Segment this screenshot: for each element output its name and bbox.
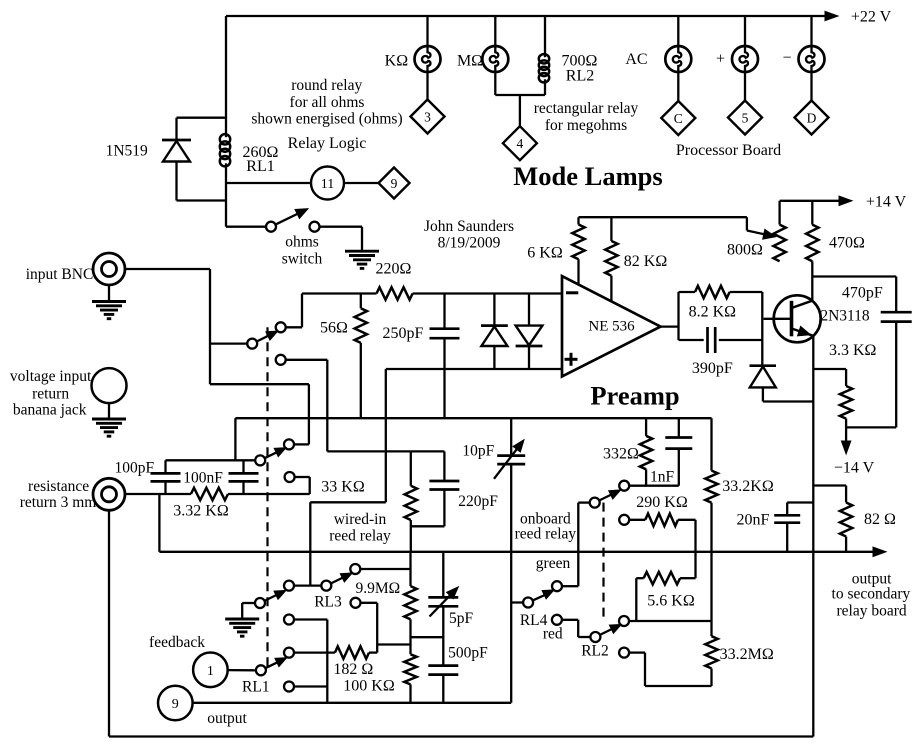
svg-text:−: −: [782, 50, 791, 67]
svg-text:Processor Board: Processor Board: [676, 142, 781, 159]
svg-text:relay board: relay board: [837, 603, 907, 620]
svg-text:RL3: RL3: [314, 594, 342, 611]
svg-text:input BNC: input BNC: [26, 266, 94, 283]
svg-text:5pF: 5pF: [449, 610, 474, 627]
svg-text:100pF: 100pF: [114, 460, 154, 477]
svg-text:to secondary: to secondary: [832, 586, 911, 603]
svg-text:8/19/2009: 8/19/2009: [438, 235, 501, 252]
svg-text:return: return: [32, 386, 69, 403]
svg-text:82 Ω: 82 Ω: [864, 511, 896, 528]
svg-text:2N3118: 2N3118: [820, 308, 870, 325]
svg-text:return 3 mm: return 3 mm: [20, 494, 97, 511]
svg-text:RL2: RL2: [566, 68, 594, 85]
svg-text:−14 V: −14 V: [834, 460, 875, 477]
svg-text:switch: switch: [282, 251, 323, 268]
svg-text:332Ω: 332Ω: [603, 446, 639, 463]
svg-text:for megohms: for megohms: [545, 117, 627, 134]
svg-text:33 KΩ: 33 KΩ: [321, 479, 365, 496]
svg-text:390pF: 390pF: [692, 360, 733, 377]
svg-text:4: 4: [517, 136, 524, 151]
svg-text:9.9MΩ: 9.9MΩ: [355, 580, 400, 597]
svg-text:+: +: [716, 51, 725, 68]
svg-text:reed relay: reed relay: [515, 526, 577, 543]
svg-text:10pF: 10pF: [462, 443, 494, 460]
svg-text:500pF: 500pF: [448, 645, 488, 662]
svg-text:KΩ: KΩ: [385, 53, 409, 70]
svg-text:1N519: 1N519: [106, 143, 148, 160]
svg-text:9: 9: [172, 697, 179, 712]
svg-text:1: 1: [207, 664, 214, 679]
svg-text:D: D: [807, 111, 817, 126]
svg-text:33.2KΩ: 33.2KΩ: [722, 478, 774, 495]
svg-text:RL2: RL2: [581, 643, 609, 660]
svg-text:output: output: [207, 710, 247, 727]
svg-text:NE 536: NE 536: [588, 319, 635, 335]
svg-text:RL1: RL1: [242, 679, 270, 696]
svg-text:11: 11: [321, 177, 334, 192]
svg-text:C: C: [674, 111, 683, 126]
svg-text:MΩ: MΩ: [457, 53, 483, 70]
svg-text:56Ω: 56Ω: [320, 320, 348, 337]
svg-text:voltage input: voltage input: [10, 368, 92, 385]
svg-text:470Ω: 470Ω: [829, 235, 865, 252]
svg-text:182 Ω: 182 Ω: [333, 661, 373, 678]
svg-text:wired-in: wired-in: [334, 511, 387, 528]
svg-text:8.2 KΩ: 8.2 KΩ: [689, 304, 737, 321]
svg-text:100nF: 100nF: [183, 470, 223, 487]
svg-text:shown energised (ohms): shown energised (ohms): [251, 111, 402, 128]
svg-text:Relay Logic: Relay Logic: [288, 135, 367, 152]
svg-text:green: green: [536, 555, 571, 572]
svg-text:John Saunders: John Saunders: [424, 218, 514, 235]
svg-text:+14 V: +14 V: [866, 194, 907, 211]
svg-text:6 KΩ: 6 KΩ: [527, 245, 563, 262]
svg-text:9: 9: [391, 176, 398, 191]
svg-text:RL1: RL1: [246, 158, 274, 175]
svg-text:feedback: feedback: [149, 634, 205, 651]
svg-text:3: 3: [424, 110, 431, 125]
svg-text:AC: AC: [625, 51, 647, 68]
svg-text:20nF: 20nF: [737, 512, 770, 529]
svg-text:Mode Lamps: Mode Lamps: [513, 161, 662, 191]
svg-text:resistance: resistance: [28, 478, 89, 495]
svg-text:220pF: 220pF: [458, 493, 498, 510]
svg-text:3.3 KΩ: 3.3 KΩ: [829, 342, 877, 359]
svg-text:5: 5: [742, 111, 749, 126]
svg-text:800Ω: 800Ω: [727, 242, 763, 259]
svg-text:3.32 KΩ: 3.32 KΩ: [173, 503, 229, 520]
svg-text:33.2MΩ: 33.2MΩ: [720, 646, 774, 663]
svg-text:Preamp: Preamp: [590, 381, 679, 411]
svg-text:250pF: 250pF: [383, 325, 424, 342]
svg-text:1nF: 1nF: [650, 469, 675, 486]
svg-text:red: red: [543, 626, 563, 643]
svg-text:rectangular relay: rectangular relay: [534, 100, 639, 117]
svg-text:reed relay: reed relay: [329, 528, 391, 545]
svg-text:100 KΩ: 100 KΩ: [343, 678, 395, 695]
svg-text:82 KΩ: 82 KΩ: [624, 253, 668, 270]
svg-text:for all ohms: for all ohms: [290, 94, 365, 111]
svg-text:banana jack: banana jack: [13, 402, 87, 419]
svg-text:ohms: ohms: [285, 234, 319, 251]
svg-text:220Ω: 220Ω: [376, 261, 412, 278]
svg-text:470pF: 470pF: [842, 285, 883, 302]
svg-text:round relay: round relay: [291, 77, 362, 94]
svg-text:+22 V: +22 V: [851, 9, 892, 26]
svg-text:5.6 KΩ: 5.6 KΩ: [647, 593, 695, 610]
svg-text:290 KΩ: 290 KΩ: [636, 494, 688, 511]
